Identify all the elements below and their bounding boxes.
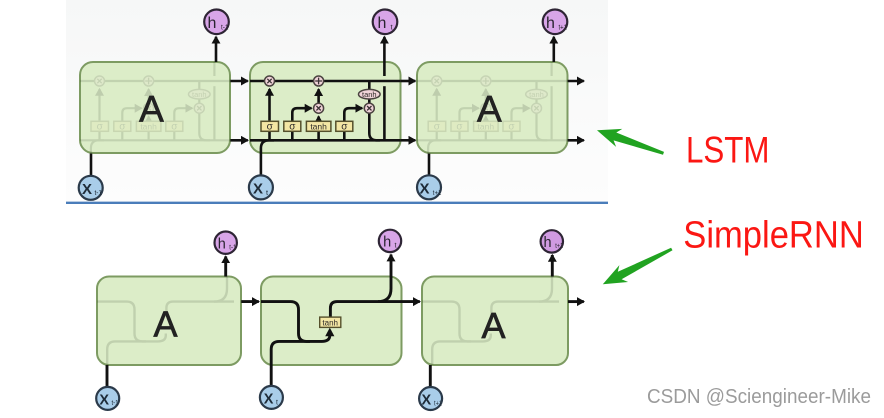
green annotation arrow (LSTM) <box>597 129 664 155</box>
node x(t+1) bottom <box>419 387 442 410</box>
LSTM cell box A (t+1) <box>417 62 568 153</box>
node h(t-1) bottom <box>215 232 237 254</box>
svg-text:t: t <box>276 399 278 406</box>
node x(t-1) bottom <box>96 387 119 410</box>
svg-text:X: X <box>82 181 92 198</box>
svg-text:A: A <box>477 88 502 129</box>
wire box2->box3 bottom <box>401 139 416 142</box>
svg-text:A: A <box>139 88 164 129</box>
h(t) output arrow bottom <box>390 255 393 277</box>
x(t+1) input wire bottom <box>429 365 432 387</box>
LSTM cell box (t) <box>250 62 401 153</box>
svg-text:A: A <box>153 304 177 345</box>
wire boxL->boxM <box>241 300 259 303</box>
svg-text:tanh: tanh <box>322 318 338 327</box>
wire boxR out <box>568 300 584 303</box>
svg-text:X: X <box>419 181 429 198</box>
svg-text:t-1: t-1 <box>229 244 236 251</box>
svg-text:h: h <box>543 235 551 251</box>
h(t+1) output arrow bottom <box>551 255 554 277</box>
svg-text:SimpleRNN: SimpleRNN <box>683 215 864 257</box>
LSTM cell box A (t-1) <box>80 62 230 153</box>
wire box3 out bottom <box>568 139 584 142</box>
internals of middle RNN box <box>261 277 398 366</box>
wire box3 out top <box>568 80 584 83</box>
node h(t) <box>373 9 398 34</box>
faint internals of left RNN box <box>97 277 234 366</box>
tanh box <box>320 317 341 327</box>
faint internals of left LSTM box <box>80 62 231 154</box>
svg-text:A: A <box>481 305 505 346</box>
node x(t) bottom <box>260 386 283 409</box>
node x(t) <box>249 175 273 199</box>
RNN cell box A (t-1) <box>97 277 241 366</box>
x(t-1) input wire bottom <box>106 365 109 387</box>
svg-text:t-1: t-1 <box>221 23 229 32</box>
svg-text:h: h <box>208 15 217 32</box>
svg-text:LSTM: LSTM <box>686 128 770 170</box>
svg-text:CSDN @Sciengineer-Mike: CSDN @Sciengineer-Mike <box>647 385 871 408</box>
arrow into tanh box <box>325 328 334 337</box>
slide background area <box>66 0 608 202</box>
svg-text:X: X <box>264 391 274 407</box>
x(t-1) input wire <box>90 154 93 176</box>
RNN cell box (t) <box>261 277 402 366</box>
h(t) output arrow <box>383 37 386 62</box>
h(t-1) output arrow <box>215 37 218 62</box>
svg-text:h: h <box>383 235 391 251</box>
slide bottom blue line <box>66 202 608 204</box>
svg-text:t+1: t+1 <box>555 243 563 250</box>
internals of middle LSTM box <box>250 62 401 154</box>
svg-text:t+1: t+1 <box>559 23 568 32</box>
svg-text:t: t <box>395 243 397 250</box>
node h(t+1) <box>543 9 568 34</box>
h(t-1) output arrow bottom <box>224 256 227 276</box>
svg-text:t+1: t+1 <box>434 400 442 407</box>
svg-text:X: X <box>99 392 109 408</box>
svg-text:t+1: t+1 <box>433 188 442 197</box>
node h(t) bottom <box>379 230 401 252</box>
x(t+1) input wire <box>428 154 431 176</box>
wire box2->box3 top <box>401 80 416 83</box>
svg-text:h: h <box>378 15 387 32</box>
wire boxM->boxR (head) <box>398 300 420 303</box>
x(t) input wire <box>260 154 263 176</box>
svg-text:X: X <box>253 181 263 198</box>
svg-text:h: h <box>218 236 226 252</box>
green annotation arrow (SimpleRNN) <box>603 248 673 285</box>
svg-text:h: h <box>546 15 555 32</box>
faint internals of right RNN box <box>422 277 559 366</box>
node x(t+1) <box>417 175 441 199</box>
svg-text:X: X <box>421 393 431 409</box>
h(t+1) output arrow <box>552 37 555 62</box>
wire box1->box2 top <box>230 80 248 83</box>
node x(t-1) <box>79 176 103 200</box>
faint internals of right LSTM box <box>417 62 568 154</box>
x(t) input wire bottom <box>270 365 273 386</box>
svg-text:t-1: t-1 <box>95 188 103 197</box>
wire box1->box2 bottom <box>230 139 248 142</box>
RNN cell box A (t+1) <box>422 277 568 366</box>
svg-text:t-1: t-1 <box>112 400 119 407</box>
node h(t-1) <box>204 9 229 34</box>
node h(t+1) bottom <box>541 230 564 252</box>
